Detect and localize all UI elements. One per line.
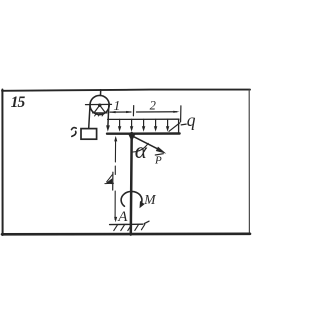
dim 4 arrow bottom	[114, 217, 117, 222]
svg-text:15: 15	[11, 94, 26, 111]
distributed load top line	[108, 118, 179, 120]
moment M arrowhead	[140, 201, 145, 208]
pulley support triangle	[93, 105, 107, 113]
q leader	[169, 123, 186, 131]
frame border bottom	[2, 233, 250, 236]
rope right segment with arrow	[107, 106, 110, 127]
frame border right	[248, 90, 250, 234]
pulley support hatches	[95, 113, 104, 116]
svg-text:P: P	[154, 154, 162, 166]
junction gusset	[128, 133, 137, 142]
angle alpha arc	[133, 143, 148, 152]
dim arrow right	[173, 111, 179, 113]
dim 4 arrow top	[114, 136, 117, 142]
dimension line	[110, 111, 177, 113]
svg-text:2: 2	[150, 99, 156, 113]
moment M arc	[121, 191, 142, 206]
dimension 4 line	[114, 138, 117, 220]
frame border top	[2, 90, 250, 91]
load right edge	[178, 119, 180, 132]
rope left segment	[89, 106, 90, 129]
pulley circle	[90, 95, 109, 114]
weight box	[81, 129, 97, 140]
pulley mount tick	[100, 90, 102, 96]
svg-text:α: α	[135, 138, 148, 163]
load divider arrows	[120, 119, 168, 126]
dim tick right	[180, 106, 182, 122]
frame border left	[1, 90, 3, 236]
column bar	[130, 133, 133, 235]
pulley pin	[98, 104, 101, 107]
force P arrowhead	[156, 147, 166, 154]
dim arrow left	[109, 111, 115, 113]
ground hatching	[114, 224, 145, 230]
ground right tick	[144, 221, 149, 223]
ground line	[110, 223, 143, 225]
dim tick middle	[132, 106, 134, 116]
svg-text:A: A	[117, 209, 128, 225]
force P line	[131, 135, 159, 149]
svg-text:M: M	[143, 192, 156, 207]
dim label 4	[105, 172, 114, 190]
weight label G	[72, 128, 77, 130]
dim arrow mid	[126, 111, 132, 113]
pulley axle line	[86, 103, 112, 105]
beam	[107, 132, 180, 135]
svg-text:q: q	[187, 110, 196, 130]
svg-text:1: 1	[113, 99, 120, 114]
